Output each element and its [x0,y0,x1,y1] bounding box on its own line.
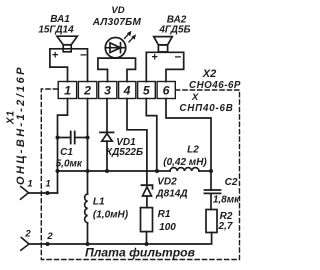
inductor L2 [157,168,211,171]
LED VD emission arrows [125,31,137,42]
svg-text:2: 2 [46,231,53,242]
diode VD1 [100,132,114,171]
svg-text:СНО46-6Р: СНО46-6Р [189,80,241,91]
svg-text:4: 4 [123,84,131,98]
svg-text:Плата фильтров: Плата фильтров [85,246,196,260]
wire from contact 2 down to mid rail [87,99,89,172]
svg-text:Х2: Х2 [202,68,216,80]
speaker BA2 symbol [154,37,173,52]
X1 pin 2 wire / bottom rail [29,233,212,245]
junction dot mid rail left [56,169,60,173]
LED VD connector block [98,58,136,81]
connector X2 contact strip cell 2 [78,82,96,99]
connector X2 contact strip cell 5 [138,82,156,99]
junction dot L1 top [86,169,90,173]
speaker BA1 symbol [57,36,77,52]
svg-text:100: 100 [159,222,176,233]
svg-text:–: – [175,49,182,63]
connector X2 contact strip cell 3 [99,82,117,99]
wire from contact 6 staircase to C2 node [166,99,211,172]
svg-text:6: 6 [163,84,170,98]
resistor R2 [206,210,217,233]
svg-text:АЛ307БМ: АЛ307БМ [92,17,142,28]
svg-text:С2: С2 [225,177,238,188]
svg-text:1: 1 [45,179,50,190]
svg-text:3: 3 [104,84,111,98]
svg-text:R1: R1 [158,209,171,220]
LED VD symbol [105,38,125,58]
wire from contact 5 staircase to mid rail node [146,99,157,172]
junction dot C2 top [209,169,213,173]
svg-text:–: – [80,47,87,61]
svg-text:VD2: VD2 [157,177,177,188]
svg-text:(1,0мН): (1,0мН) [93,210,129,221]
svg-text:15ГД14: 15ГД14 [38,25,74,36]
svg-text:1: 1 [64,84,71,98]
junction dot C1 left [56,136,60,140]
terminal dot pin 2 [46,242,50,246]
junction dot C1 right [86,136,90,140]
svg-text:1,8мк: 1,8мк [213,195,240,206]
wire from contact 1 to C1 left node [58,99,68,138]
capacitor C1 [58,132,88,144]
junction dot R1 bottom [145,242,149,246]
mid rail wire [58,170,158,172]
svg-text:СНП40-6В: СНП40-6В [179,103,233,114]
resistor R1 [141,208,153,232]
svg-text:5: 5 [143,84,150,98]
capacitor C2 [205,171,221,210]
svg-text:+: + [151,52,158,64]
junction dot L1 bottom [86,242,90,246]
svg-text:1: 1 [27,179,32,190]
wire from contact 4 staircase to VD2 [127,99,147,186]
zener diode VD2 [142,185,153,207]
X1 pin 2 arrow [21,238,29,251]
junction dot VD1 bottom [105,169,109,173]
svg-text:С1: С1 [60,147,73,158]
svg-text:КД522Б: КД522Б [106,147,143,158]
speaker BA2 connector block with polarity [146,49,183,82]
svg-text:2: 2 [83,84,91,98]
terminal dot pin 1 [46,191,50,195]
connector X2 contact strip cell 1 [58,82,76,99]
X1 pin 1 wire to board [29,192,58,194]
speaker BA1 connector block with polarity [50,47,88,82]
svg-text:2,7: 2,7 [218,221,233,232]
resistor R1 wire to rail [146,232,148,244]
board outline (filter board) dashed border [41,89,239,260]
svg-text:L2: L2 [187,145,199,156]
svg-text:2: 2 [24,229,31,240]
connector X2 contact strip cell 6 [157,82,175,99]
connector X2 contact strip cell 4 [119,82,136,99]
svg-text:L1: L1 [93,197,105,208]
svg-text:5,0мк: 5,0мк [56,159,83,170]
svg-text:(0,42 мН): (0,42 мН) [163,157,207,168]
vertical wire C1 node to pin1 wire [57,138,59,194]
svg-text:ОНЦ-ВН-1-2/16Р: ОНЦ-ВН-1-2/16Р [15,65,27,185]
svg-text:ВА1: ВА1 [50,14,70,25]
svg-text:Д814Д: Д814Д [155,189,187,200]
junction dot L2 left [155,169,159,173]
svg-text:VD: VD [111,5,124,16]
inductor L1 [85,171,88,244]
svg-text:Х: Х [191,92,199,103]
X1 connector designator and type (rotated) [6,65,27,185]
wire from contact 3 to VD1 [106,99,108,133]
X1 pin 1 arrow [21,187,29,200]
svg-text:+: + [52,50,59,62]
svg-text:4ГД5Б: 4ГД5Б [158,25,190,36]
